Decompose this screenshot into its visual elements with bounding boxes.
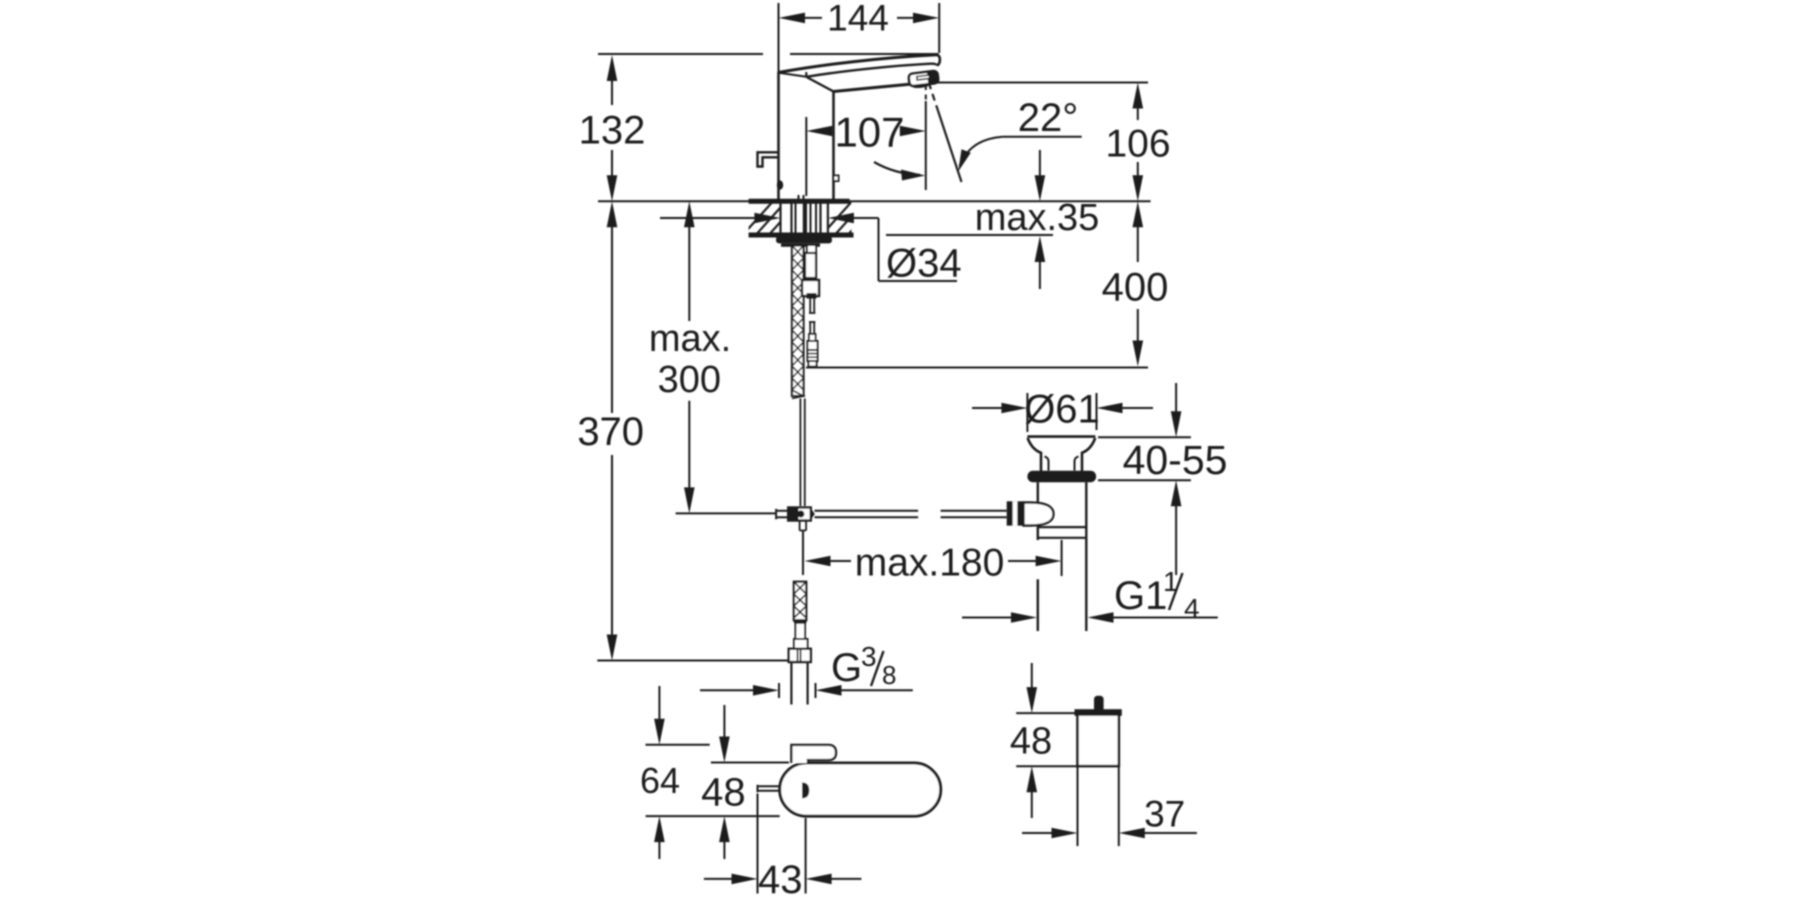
rod extension below tee (802, 531, 804, 575)
dimension 106 (935, 83, 1171, 202)
svg-text:max.: max. (649, 318, 731, 360)
svg-text:max.35: max.35 (975, 197, 1100, 239)
dimension 64 (640, 686, 710, 859)
svg-text:107: 107 (834, 109, 904, 156)
sensor window (834, 176, 839, 182)
svg-text:48: 48 (1010, 720, 1052, 762)
dimension 43 (704, 794, 862, 900)
label 22deg with leader (958, 96, 1081, 172)
dimension G1 1/4 (962, 566, 1218, 624)
hose end connectors and G3/8 nut (789, 620, 811, 662)
svg-text:40-55: 40-55 (1123, 437, 1228, 483)
drain O-ring (1027, 471, 1096, 482)
svg-text:132: 132 (579, 109, 646, 153)
control unit rod hole (802, 782, 809, 798)
supply hose lower hatched section (794, 582, 807, 621)
dimension max.300 (649, 201, 776, 513)
svg-text:400: 400 (1102, 266, 1169, 310)
counter hatching (740, 198, 881, 238)
svg-text:G: G (831, 646, 862, 690)
svg-text:43: 43 (758, 858, 803, 900)
faucet lever (758, 152, 784, 189)
dimension max.180 (805, 540, 1062, 585)
mounting nut flange (776, 236, 832, 247)
dimension 37 (1022, 766, 1197, 846)
svg-text:G1: G1 (1114, 574, 1167, 618)
faucet aerator (908, 71, 939, 90)
dimension 370 (577, 201, 788, 660)
counter bottom edge (749, 233, 1053, 238)
dimension 400 (806, 201, 1168, 367)
faucet spout outline (779, 55, 940, 92)
drain flange (1027, 437, 1095, 472)
spray axis dashed line (925, 85, 927, 190)
bottom-left control unit capsule (780, 763, 941, 816)
angle arc with arrow (874, 162, 925, 181)
horizontal pop-up rod (815, 511, 1007, 518)
svg-text:22°: 22° (1018, 96, 1079, 140)
bottom-right unit box (1075, 696, 1122, 766)
dimension 48 (control unit side) (646, 705, 789, 859)
dimension Ø34 arrows (660, 213, 962, 286)
pull rod tee fitting (776, 508, 815, 531)
dimension 132 (579, 55, 646, 201)
dimension Ø61 (972, 388, 1153, 433)
pop-up pull rod (800, 399, 804, 507)
svg-text:144: 144 (827, 0, 889, 39)
dimension 48 (bottom right) (1010, 663, 1078, 818)
svg-text:64: 64 (640, 760, 680, 801)
svg-text:3: 3 (861, 641, 877, 672)
svg-text:Ø34: Ø34 (886, 242, 962, 286)
dimension 40-55 (1098, 383, 1227, 575)
svg-text:300: 300 (658, 359, 721, 401)
svg-text:8: 8 (882, 660, 896, 690)
faucet shank through counter (781, 195, 828, 236)
dimension 144 (779, 0, 940, 72)
dimension 107 (806, 109, 926, 197)
svg-text:370: 370 (577, 410, 644, 454)
svg-text:37: 37 (1144, 794, 1185, 835)
svg-text:48: 48 (701, 771, 746, 815)
dimension G3/8 (700, 641, 913, 698)
threaded shank with hatch (792, 246, 804, 399)
control unit inlet stub (758, 785, 780, 793)
22 degree spray line (929, 83, 962, 183)
counter top line (598, 200, 1151, 202)
drain side fitting (1007, 501, 1054, 525)
drain body (1038, 482, 1087, 631)
dimension max.35 (975, 150, 1100, 289)
control unit lever (791, 745, 836, 763)
hose connector column right of shank (802, 245, 819, 367)
G3/8 pipe (791, 662, 807, 705)
svg-text:4: 4 (1184, 593, 1200, 624)
svg-text:Ø61: Ø61 (1024, 388, 1100, 432)
top reference line y=54 (598, 53, 939, 55)
faucet pillar (779, 72, 834, 201)
svg-text:max.180: max.180 (855, 542, 1005, 585)
svg-text:106: 106 (1105, 123, 1170, 166)
